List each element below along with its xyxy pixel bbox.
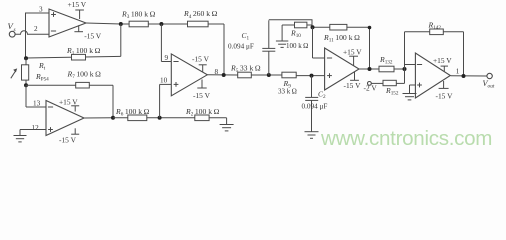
wire U4 inverting input [405,64,416,66]
node dot output drop R4 [222,73,226,77]
ground tap at R10 left [276,25,288,47]
node dot C2 drop [310,74,314,78]
wire R11 corner drop to U3 output [347,26,372,69]
wire R132 to summing node [394,68,405,70]
node dot bridge top [24,56,28,60]
resistor R11 [323,24,360,43]
ground at bottom rail right [220,118,234,131]
resistor R152 [383,80,399,96]
wire pin 3 input [25,12,49,14]
wire U3 output [359,68,379,70]
wire U4 output [451,75,487,77]
pin label 3 [39,6,43,14]
op-amp U5 [46,101,84,136]
resistor R132 [379,55,394,72]
wire U4 + input to ground [410,84,416,86]
watermark www.cntronics.com [320,127,492,150]
node dot summing [403,67,407,71]
ground at U5 + input [14,130,27,142]
+15V supply U3 [343,48,362,66]
-15V supply U3 [344,72,362,90]
svg-text:3: 3 [39,6,43,14]
wire pin 12 to ground [20,129,46,131]
svg-text:-15 V: -15 V [193,91,211,100]
node dot U3 inverting drop [311,25,315,29]
svg-text:12: 12 [32,124,40,132]
wire bridge branch vertical [25,13,27,58]
node dot bridge bottom [24,83,28,87]
-15V supply U4 [436,81,454,100]
wire U1 output [86,23,121,24]
svg-text:-15 V: -15 V [84,32,102,41]
node dot U5 feedback [111,116,115,120]
svg-text:www.cntronics.com: www.cntronics.com [320,127,492,150]
svg-text:-15 V: -15 V [192,54,210,63]
capacitor C1 [228,20,275,75]
svg-text:10: 10 [160,77,168,85]
resistor R10 [286,22,312,50]
wire -2V to R152 [371,82,383,84]
wire bottom rail [113,117,227,119]
ground below C2 [305,132,319,139]
wire U2 output row [207,74,237,76]
svg-text:+15 V: +15 V [343,48,362,57]
node dot output [462,74,466,78]
svg-text:s: s [14,27,16,33]
op-amp U4 [415,53,450,98]
node dot feedback R1 [119,22,123,26]
thermistor Rt RP54 [11,58,49,85]
pin label 9 [165,54,169,62]
wire U3 inverting input [313,27,325,58]
node dot pin9 drop [159,22,163,26]
pin label 1 [456,67,460,75]
svg-text:-2 V: -2 V [364,83,378,92]
resistor R5 [230,63,261,77]
resistor R2 [185,107,220,121]
output terminal Vout [483,73,495,89]
-15V supply U2 top [192,54,210,72]
pin label 13 [33,100,41,108]
resistor R7 [67,70,102,89]
svg-text:0.094 μF: 0.094 μF [228,42,254,50]
-15V supply U2 bottom [193,80,211,101]
node dot C1 bottom [267,73,271,77]
wire R9 to U3 [296,75,324,77]
wire U5 output [84,117,113,119]
svg-text:R1 100 k Ω: R1 100 k Ω [66,46,101,57]
svg-text:+15 V: +15 V [433,56,452,65]
op-amp U1 [49,9,86,37]
wire summing vertical [404,32,406,84]
pin label 12 [32,124,40,132]
resistor R4 [183,9,218,27]
svg-text:2: 2 [34,25,38,33]
terminal -2V [364,82,378,93]
svg-text:-15 V: -15 V [59,136,77,145]
resistor R9 [278,72,297,95]
input terminal Vs [8,21,16,37]
feedback rail R142 [405,32,464,76]
pin label 8 [215,68,219,76]
wire pin 13 [26,85,46,107]
-15V supply U5 [59,128,79,144]
wire R1 row [26,24,121,58]
svg-text:9: 9 [165,54,169,62]
wire R10 to R11 [313,26,330,28]
ground at U4 + input [403,85,417,100]
wire R4 corner drop to U2 output [223,24,225,75]
wire R7 row [26,85,113,118]
svg-text:13: 13 [33,100,41,108]
wire R152 to summing node [396,82,404,84]
pin label 10 [160,77,168,85]
svg-text:33 k Ω: 33 k Ω [278,88,297,96]
+15V supply U5 [59,98,79,112]
resistor R142 [428,21,444,35]
wire pin 10 riser [160,84,172,117]
resistor R6 [115,107,150,121]
+15V supply U1 [68,0,87,19]
wire pin 9 drop [161,24,171,62]
svg-text:-15 V: -15 V [436,91,454,100]
wire R5 to R9 [251,74,282,76]
svg-text:R5 33 k Ω: R5 33 k Ω [230,63,261,74]
wire ground tap to R10 [282,24,294,26]
svg-text:1: 1 [456,67,460,75]
node dot feedback R11 drop [368,67,372,71]
wire Vs to pin 2 with hop over bridge branch [15,31,49,35]
svg-text:100 k Ω: 100 k Ω [286,42,308,50]
svg-text:-15 V: -15 V [344,81,362,90]
op-amp U2 [171,54,207,96]
node dot pin10 riser [158,116,162,120]
capacitor C2 [302,76,328,132]
-15V supply U1 [74,25,101,40]
resistor R1 [66,46,101,60]
resistor R3 [121,10,156,27]
pin label 2 [34,25,38,33]
wire top rail [121,23,224,25]
svg-text:+15 V: +15 V [59,98,78,107]
svg-text:0.094 μF: 0.094 μF [302,103,328,111]
op-amp U3 [325,48,359,90]
wire C1 top rail [269,20,312,27]
svg-text:+15 V: +15 V [68,0,87,9]
+15V supply U4 [433,56,452,71]
